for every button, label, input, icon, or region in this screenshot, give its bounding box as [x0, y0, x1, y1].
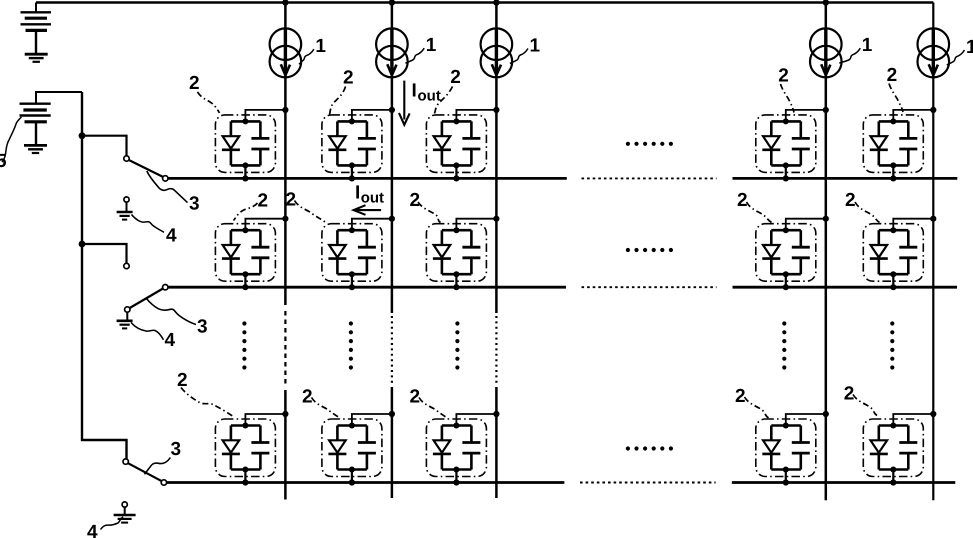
leader for label 3 (row 3): [145, 458, 171, 475]
diode branch: [336, 426, 339, 470]
diode branch: [336, 121, 339, 165]
junction on column: [493, 216, 499, 222]
wire: cell bottom lead to row: [244, 165, 246, 178]
inner top node wire: [231, 424, 261, 427]
svg-text:I: I: [355, 182, 360, 203]
wire: column line 1 (bit line): [284, 3, 287, 306]
inner bottom node wire: [231, 468, 261, 471]
current source 1 (column 2): [376, 28, 408, 77]
memory cell 2 (row 2, col 3): [426, 216, 499, 291]
svg-text:1: 1: [315, 36, 326, 57]
wire: cell top lead to column: [352, 414, 392, 426]
wire: cell bottom lead to row: [892, 165, 894, 178]
svg-text:2: 2: [343, 67, 354, 88]
junction on row: [349, 284, 355, 290]
wire: column line 2 (bit line): [391, 3, 394, 314]
leader for label 2 (row 1, col 4): [781, 84, 795, 113]
node dot top: [349, 423, 355, 429]
inner bottom node wire: [771, 468, 801, 471]
junction on column: [282, 107, 288, 113]
diode triangle: [763, 440, 780, 452]
leader for label 3 (row 1): [147, 171, 188, 203]
inner top node wire: [337, 120, 367, 123]
leader for label 2 (row 1, col 3): [434, 87, 453, 116]
diode triangle: [223, 136, 240, 148]
wire: row line 1 (dotted continuation): [582, 177, 717, 179]
leader for label 2 (row 3, col 4): [745, 397, 769, 418]
capacitor branch: [907, 121, 910, 165]
memory cell 2 (row 3, col 2): [322, 411, 395, 486]
inner top node wire: [879, 120, 909, 123]
wire: row line 2 (right solid): [733, 286, 958, 289]
diode branch: [770, 121, 773, 165]
cell enclosure (dash-dot): [426, 419, 486, 477]
current source 1 (column 4): [810, 28, 842, 77]
node dot bottom: [242, 467, 248, 473]
wire: cell bottom lead to row: [785, 165, 787, 178]
capacitor branch: [470, 121, 473, 165]
switch 3 (row 1) row contact: [163, 176, 168, 181]
junction on row: [453, 284, 459, 290]
current source 1 (column 1): [270, 28, 302, 77]
inner top node wire: [442, 229, 472, 232]
junction on row: [783, 284, 789, 290]
svg-text:out: out: [361, 190, 384, 207]
leader for label 2 (row 2, col 5): [855, 202, 880, 223]
wire: cell bottom lead to row: [785, 274, 787, 287]
inner top node wire: [879, 424, 909, 427]
capacitor plates: [899, 138, 917, 149]
junction on column: [493, 411, 499, 417]
wire: cell top lead to column: [456, 110, 496, 122]
svg-text:2: 2: [887, 65, 898, 86]
wire: cell bottom lead to row: [455, 165, 457, 178]
diode cathode bar: [762, 453, 780, 456]
diode branch: [230, 426, 233, 470]
junction on column: [930, 107, 936, 113]
switch 3 (row 3) row contact: [161, 480, 166, 485]
junction on row: [783, 175, 789, 181]
wire: cell top lead to column: [786, 414, 826, 426]
junction on column: [282, 411, 288, 417]
capacitor plates: [358, 443, 376, 454]
svg-text:1: 1: [530, 36, 541, 57]
memory cell 2 (row 1, col 1): [215, 107, 288, 182]
switch 3 (row 3) blade: [128, 463, 162, 481]
junction on row: [890, 284, 896, 290]
leader for label 2 (row 2, col 4): [747, 202, 772, 223]
diode branch: [230, 121, 233, 165]
wire: cell top lead to column: [893, 219, 933, 231]
diode triangle: [329, 440, 346, 452]
diode triangle: [871, 245, 888, 257]
ground 4 (row 2): [117, 321, 133, 329]
inner top node wire: [771, 229, 801, 232]
wire: cell top lead to column: [245, 219, 285, 231]
diode cathode bar: [870, 453, 888, 456]
ground 4 (row 1): [117, 212, 133, 220]
wire: cell bottom lead to row: [455, 274, 457, 287]
wire: column line 4 (bit line): [825, 3, 828, 501]
capacitor branch: [259, 121, 262, 165]
capacitor branch: [259, 230, 262, 274]
inner bottom node wire: [337, 468, 367, 471]
ellipsis: vertical continuation dots at x=244.4: [242, 321, 246, 369]
capacitor plates: [462, 138, 480, 149]
svg-text:2: 2: [844, 384, 855, 405]
node dot bottom: [453, 467, 459, 473]
wire: branch bus to open terminal (row 2): [82, 244, 127, 263]
memory cell 2 (row 3, col 4): [756, 411, 829, 486]
diode branch: [441, 230, 444, 274]
capacitor plates: [358, 247, 376, 258]
wire: cell top lead to column: [352, 110, 392, 122]
wire: left select bus: [82, 92, 127, 459]
junction on row: [349, 479, 355, 485]
diode branch: [230, 230, 233, 274]
capacitor branch: [799, 230, 802, 274]
diode branch: [441, 426, 444, 470]
switch 3 (row 2) blade to ground: [130, 289, 163, 309]
svg-text:4: 4: [87, 522, 98, 538]
leader for label 1 (column 5): [947, 50, 965, 65]
diode triangle: [763, 245, 780, 257]
current source 1 (column 5): [918, 28, 950, 77]
inner bottom node wire: [879, 164, 909, 167]
diode branch: [877, 230, 880, 274]
svg-text:2: 2: [450, 67, 461, 88]
capacitor plates: [251, 247, 269, 258]
cell enclosure (dash-dot): [756, 224, 816, 282]
diode triangle: [871, 136, 888, 148]
diode triangle: [434, 245, 451, 257]
wire: row line 3 (right solid): [732, 481, 956, 484]
node dot bottom: [783, 467, 789, 473]
wire: row line 1 (right solid): [733, 177, 958, 180]
cell enclosure (dash-dot): [215, 224, 275, 282]
inner bottom node wire: [879, 273, 909, 276]
svg-text:3: 3: [171, 439, 182, 460]
inner top node wire: [231, 120, 261, 123]
arrow for top Iout (downward): [399, 81, 410, 125]
svg-text:2: 2: [258, 191, 269, 212]
capacitor branch: [799, 426, 802, 470]
leader for label 2 (row 2, col 2): [295, 201, 326, 223]
node dot bottom: [890, 271, 896, 277]
node dot bottom: [349, 162, 355, 168]
ellipsis: horizontal continuation dots at y=143.8: [626, 142, 673, 146]
memory cell 2 (row 3, col 1): [215, 411, 288, 486]
svg-text:2: 2: [737, 190, 748, 211]
capacitor branch: [907, 426, 910, 470]
wire: cell top lead to column: [352, 219, 392, 231]
wire: cell bottom lead to row: [455, 470, 457, 483]
svg-text:1: 1: [966, 37, 973, 58]
capacitor plates: [251, 443, 269, 454]
inner top node wire: [771, 120, 801, 123]
capacitor plates: [899, 247, 917, 258]
svg-text:2: 2: [410, 190, 421, 211]
wire: cell bottom lead to row: [892, 470, 894, 483]
diode triangle: [223, 245, 240, 257]
leader for label 2 (row 3, col 2): [312, 398, 341, 419]
diode cathode bar: [328, 257, 346, 260]
svg-text:3: 3: [189, 194, 200, 215]
wire: cell top lead to column: [893, 414, 933, 426]
ground (under top-left battery): [25, 54, 48, 62]
wire: top supply rail: [36, 1, 933, 4]
diode cathode bar: [433, 257, 451, 260]
node dot bottom: [349, 271, 355, 277]
capacitor plates: [792, 247, 810, 258]
battery 5 (row-select supply): [20, 92, 83, 145]
ellipsis: vertical continuation dots at x=892.3: [890, 321, 894, 369]
diode cathode bar: [762, 257, 780, 260]
capacitor branch: [907, 230, 910, 274]
wire: row line 3 (dotted continuation): [580, 482, 716, 484]
node dot bottom: [783, 162, 789, 168]
leader for label 2 (row 3, col 5): [853, 395, 877, 416]
diode triangle: [434, 440, 451, 452]
wire: branch bus to switch 3 (row 1): [82, 136, 127, 156]
capacitor branch: [259, 426, 262, 470]
memory cell 2 (row 1, col 4): [756, 107, 829, 182]
inner bottom node wire: [231, 273, 261, 276]
inner bottom node wire: [771, 164, 801, 167]
junction: column 3 at supply rail: [493, 0, 499, 6]
diode cathode bar: [222, 149, 240, 152]
wire: cell top lead to column: [456, 414, 496, 426]
ellipsis: vertical continuation dots at x=350.9: [349, 321, 353, 369]
junction on row: [890, 479, 896, 485]
junction on column: [823, 216, 829, 222]
svg-text:out: out: [418, 88, 441, 105]
junction on row: [349, 175, 355, 181]
junction: column 4 at supply rail: [823, 0, 829, 6]
memory cell 2 (row 3, col 3): [426, 411, 499, 486]
leader for label 2 (row 1, col 1): [198, 92, 220, 113]
cell enclosure (dash-dot): [322, 224, 382, 282]
inner top node wire: [442, 424, 472, 427]
diode triangle: [223, 440, 240, 452]
svg-text:1: 1: [862, 35, 873, 56]
open terminal (row 2, switch thrown to ground): [124, 263, 129, 268]
leader for label 1 (column 1): [299, 49, 314, 64]
inner bottom node wire: [442, 468, 472, 471]
wire: row line 2 (dotted continuation): [582, 286, 717, 288]
junction on row: [453, 175, 459, 181]
wire: cell bottom lead to row: [351, 470, 353, 483]
cell enclosure (dash-dot): [863, 224, 923, 282]
junction on row: [783, 479, 789, 485]
capacitor plates: [792, 138, 810, 149]
node dot bottom: [453, 162, 459, 168]
memory cell 2 (row 2, col 5): [863, 216, 936, 291]
cell enclosure (dash-dot): [756, 115, 816, 172]
diode triangle: [871, 440, 888, 452]
cell enclosure (dash-dot): [426, 224, 486, 282]
wire: column line 5 (bit line): [932, 3, 934, 501]
memory cell 2 (row 1, col 5): [863, 107, 936, 182]
diode cathode bar: [328, 149, 346, 152]
leader for label 2 (row 1, col 2): [330, 87, 346, 116]
diode triangle: [329, 136, 346, 148]
wire: row line 3 (left solid): [167, 481, 565, 484]
diode cathode bar: [328, 453, 346, 456]
inner bottom node wire: [879, 468, 909, 471]
svg-text:2: 2: [189, 73, 200, 94]
node dot top: [783, 118, 789, 124]
wire: cell top lead to column: [456, 219, 496, 231]
inner top node wire: [879, 229, 909, 232]
leader for label 2 (row 3, col 3): [419, 398, 448, 419]
junction: column 2 at supply rail: [389, 0, 395, 6]
wire: cell top lead to column: [893, 110, 933, 122]
arrow for row-2 Iout (leftward): [354, 205, 382, 215]
capacitor branch: [799, 121, 802, 165]
inner top node wire: [231, 229, 261, 232]
capacitor branch: [470, 426, 473, 470]
node dot top: [453, 227, 459, 233]
ellipsis: vertical continuation dots at x=784.3: [782, 321, 786, 369]
wire: cell bottom lead to row: [244, 470, 246, 483]
diode branch: [770, 426, 773, 470]
diode triangle: [329, 245, 346, 257]
switch 3 (row 2) row contact: [163, 285, 168, 290]
junction on column: [389, 107, 395, 113]
capacitor branch: [366, 426, 369, 470]
diode branch: [877, 121, 880, 165]
cell enclosure (dash-dot): [863, 419, 923, 477]
capacitor plates: [899, 443, 917, 454]
leader for label 4 (row 2): [131, 323, 164, 340]
open ground contact terminal (row 1): [124, 197, 129, 202]
node dot top: [453, 423, 459, 429]
junction: bus to row 2 branch: [79, 241, 86, 248]
leader for label 2 (row 3, col 1): [181, 388, 233, 417]
inner bottom node wire: [337, 164, 367, 167]
node dot top: [242, 227, 248, 233]
node dot bottom: [349, 467, 355, 473]
ellipsis: horizontal continuation dots at y=448.5: [626, 446, 673, 450]
node dot top: [890, 227, 896, 233]
leader for label 1 (column 3): [510, 49, 528, 64]
node dot top: [890, 118, 896, 124]
junction on column: [282, 216, 288, 222]
inner top node wire: [442, 120, 472, 123]
node dot top: [242, 118, 248, 124]
capacitor plates: [358, 138, 376, 149]
node dot top: [349, 118, 355, 124]
cell enclosure (dash-dot): [215, 419, 275, 477]
junction on row: [242, 175, 248, 181]
junction on column: [930, 216, 936, 222]
memory cell 2 (row 2, col 1): [215, 216, 288, 291]
leader for label 4 (row 1): [132, 215, 165, 233]
node dot top: [783, 227, 789, 233]
wire: cell top lead to column: [786, 219, 826, 231]
leader for label 2 (row 1, col 5): [889, 84, 903, 113]
memory cell 2 (row 2, col 4): [756, 216, 829, 291]
inner top node wire: [337, 424, 367, 427]
wire: cell top lead to column: [786, 110, 826, 122]
inner top node wire: [337, 229, 367, 232]
diode cathode bar: [870, 257, 888, 260]
diode cathode bar: [870, 149, 888, 152]
diode cathode bar: [762, 149, 780, 152]
wire: cell bottom lead to row: [244, 274, 246, 287]
inner bottom node wire: [771, 273, 801, 276]
junction on row: [242, 479, 248, 485]
switch 3 (row 2) ground contact: [125, 307, 130, 312]
switch 3 (row 3) pivot contact: [123, 459, 128, 464]
memory cell 2 (row 2, col 2): [322, 216, 395, 291]
wire: cell top lead to column: [245, 110, 285, 122]
memory cell 2 (row 1, col 2): [322, 107, 395, 182]
svg-text:3: 3: [197, 317, 208, 338]
capacitor branch: [470, 230, 473, 274]
memory cell 2 (row 3, col 5): [863, 411, 936, 486]
svg-text:4: 4: [165, 330, 176, 351]
node dot top: [453, 118, 459, 124]
node dot bottom: [242, 162, 248, 168]
wire: row line 1 (left solid): [168, 177, 567, 180]
capacitor plates: [462, 247, 480, 258]
junction: column 1 at supply rail: [282, 0, 288, 6]
capacitor plates: [462, 443, 480, 454]
junction on column: [823, 411, 829, 417]
leader for label 4 (row 3): [101, 517, 124, 530]
wire: row line 2 (left solid): [168, 286, 566, 289]
junction on column: [389, 411, 395, 417]
svg-text:2: 2: [410, 387, 421, 408]
memory cell 2 (row 1, col 3): [426, 107, 499, 182]
cell enclosure (dash-dot): [863, 115, 923, 172]
cell enclosure (dash-dot): [215, 115, 275, 172]
switch 3 (row 1) pivot contact: [124, 156, 129, 161]
leader for label 2 (row 2, col 1): [234, 203, 258, 221]
wire: cell bottom lead to row: [351, 165, 353, 178]
svg-text:2: 2: [286, 190, 297, 211]
ellipsis: vertical continuation dots at x=457.4: [455, 321, 459, 369]
inner bottom node wire: [442, 164, 472, 167]
cell enclosure (dash-dot): [322, 419, 382, 477]
capacitor plates: [792, 443, 810, 454]
diode cathode bar: [433, 453, 451, 456]
inner bottom node wire: [231, 164, 261, 167]
capacitor branch: [366, 230, 369, 274]
inner bottom node wire: [337, 273, 367, 276]
diode cathode bar: [222, 257, 240, 260]
svg-text:2: 2: [735, 386, 746, 407]
junction on row: [453, 479, 459, 485]
switch 3 (row 1) blade: [129, 160, 163, 177]
junction on column: [930, 411, 936, 417]
diode triangle: [763, 136, 780, 148]
wire: cell bottom lead to row: [351, 274, 353, 287]
svg-text:1: 1: [426, 35, 437, 56]
wire: cell top lead to column: [245, 414, 285, 426]
node dot bottom: [890, 162, 896, 168]
battery (top-left supply): [21, 3, 52, 54]
node dot top: [783, 423, 789, 429]
ground 4 (row 3): [114, 515, 136, 523]
svg-text:2: 2: [778, 66, 789, 87]
wire: cell bottom lead to row: [785, 470, 787, 483]
junction on column: [823, 107, 829, 113]
diode cathode bar: [433, 149, 451, 152]
leader for label 3 (row 2): [146, 298, 196, 325]
